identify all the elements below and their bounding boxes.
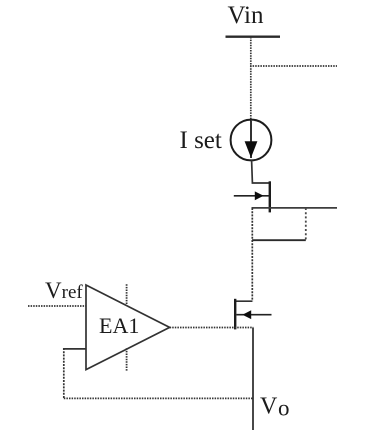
transistor M1 channel bar [269, 181, 271, 212]
wire Vref input [28, 305, 86, 307]
op-amp bottom tick mark [126, 348, 128, 370]
op-amp top tick mark [126, 284, 128, 306]
current source I1 circle [231, 120, 272, 161]
Vin supply rail bar [226, 36, 281, 38]
svg-text:Vin: Vin [228, 2, 264, 29]
wire current source to M1 drain [252, 160, 270, 183]
resistor box right edge (dotted) [305, 208, 307, 240]
wire branch right from Vin [250, 65, 337, 67]
wire op-amp output to M2 [170, 327, 254, 329]
svg-text:Vref: Vref [45, 278, 83, 303]
wire output node vertical to Vo [252, 328, 254, 431]
transistor M2 gate lead with arrow [237, 314, 272, 316]
svg-text:I set: I set [180, 127, 222, 154]
svg-text:EA1: EA1 [99, 313, 139, 338]
current source I1 arrow [250, 121, 252, 158]
wire source rail of M1 [252, 207, 338, 209]
op-amp EA1 triangle [86, 285, 170, 370]
wire Vin bar to current source [250, 37, 252, 121]
wire main vertical M1 source to M2 drain [251, 208, 253, 301]
transistor M2 drain lead [236, 300, 252, 302]
transistor M1 gate lead with arrow [234, 195, 270, 197]
svg-text:V: V [260, 394, 278, 420]
svg-text:o: o [278, 396, 290, 421]
wire feedback vertical [63, 348, 65, 398]
wire feedback stub to op-amp inverting input [64, 348, 86, 350]
wire feedback bottom horizontal [64, 397, 253, 399]
resistor box bottom edge [252, 239, 306, 241]
transistor M2 channel bar [234, 299, 236, 330]
